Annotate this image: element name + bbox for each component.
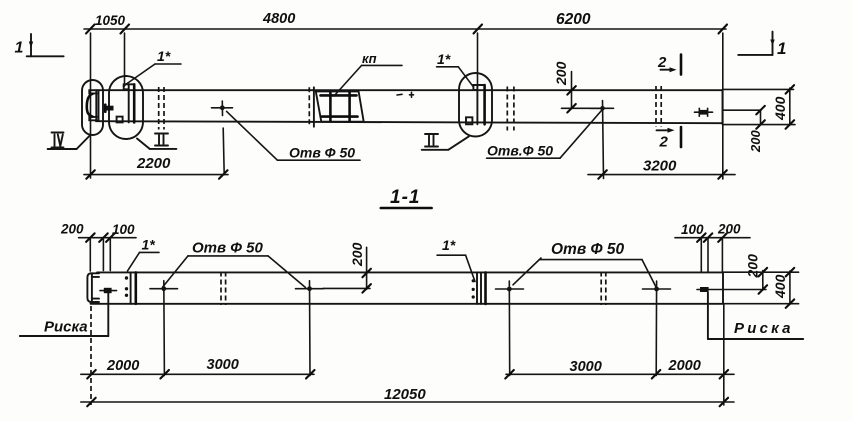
svg-text:3000: 3000 (570, 359, 602, 375)
svg-text:100: 100 (112, 222, 135, 237)
svg-text:200: 200 (60, 222, 84, 237)
svg-text:200: 200 (349, 242, 365, 267)
svg-text:1050: 1050 (95, 13, 126, 28)
svg-text:2000: 2000 (668, 358, 701, 374)
svg-text:1-1: 1-1 (390, 187, 420, 208)
svg-text:12050: 12050 (384, 386, 426, 403)
svg-text:6200: 6200 (556, 11, 591, 28)
svg-text:3200: 3200 (643, 158, 677, 175)
svg-text:1: 1 (777, 39, 786, 58)
svg-text:Отв Ф 50: Отв Ф 50 (551, 241, 625, 258)
svg-text:400: 400 (772, 96, 788, 121)
svg-text:2000: 2000 (106, 358, 139, 374)
svg-text:3000: 3000 (207, 357, 239, 373)
svg-text:200: 200 (745, 254, 761, 279)
svg-text:200: 200 (553, 61, 569, 86)
svg-text:Риска: Риска (734, 320, 794, 337)
svg-text:1*: 1* (437, 51, 451, 67)
svg-text:200: 200 (748, 130, 763, 153)
svg-text:200: 200 (717, 222, 741, 237)
svg-text:кп: кп (362, 51, 377, 66)
svg-text:4800: 4800 (262, 11, 295, 27)
svg-text:1*: 1* (157, 48, 171, 64)
svg-text:1: 1 (15, 40, 24, 57)
svg-text:2: 2 (657, 54, 667, 71)
svg-text:Отв Ф 50: Отв Ф 50 (192, 240, 263, 257)
svg-text:2200: 2200 (136, 155, 171, 172)
svg-text:Отв Ф 50: Отв Ф 50 (289, 145, 355, 161)
svg-text:1*: 1* (442, 237, 456, 253)
svg-text:Отв.Ф 50: Отв.Ф 50 (487, 143, 553, 159)
svg-text:2: 2 (659, 134, 669, 151)
svg-text:1*: 1* (142, 237, 156, 253)
svg-text:100: 100 (681, 222, 704, 237)
svg-text:Риска: Риска (44, 319, 88, 336)
svg-text:400: 400 (772, 274, 788, 299)
